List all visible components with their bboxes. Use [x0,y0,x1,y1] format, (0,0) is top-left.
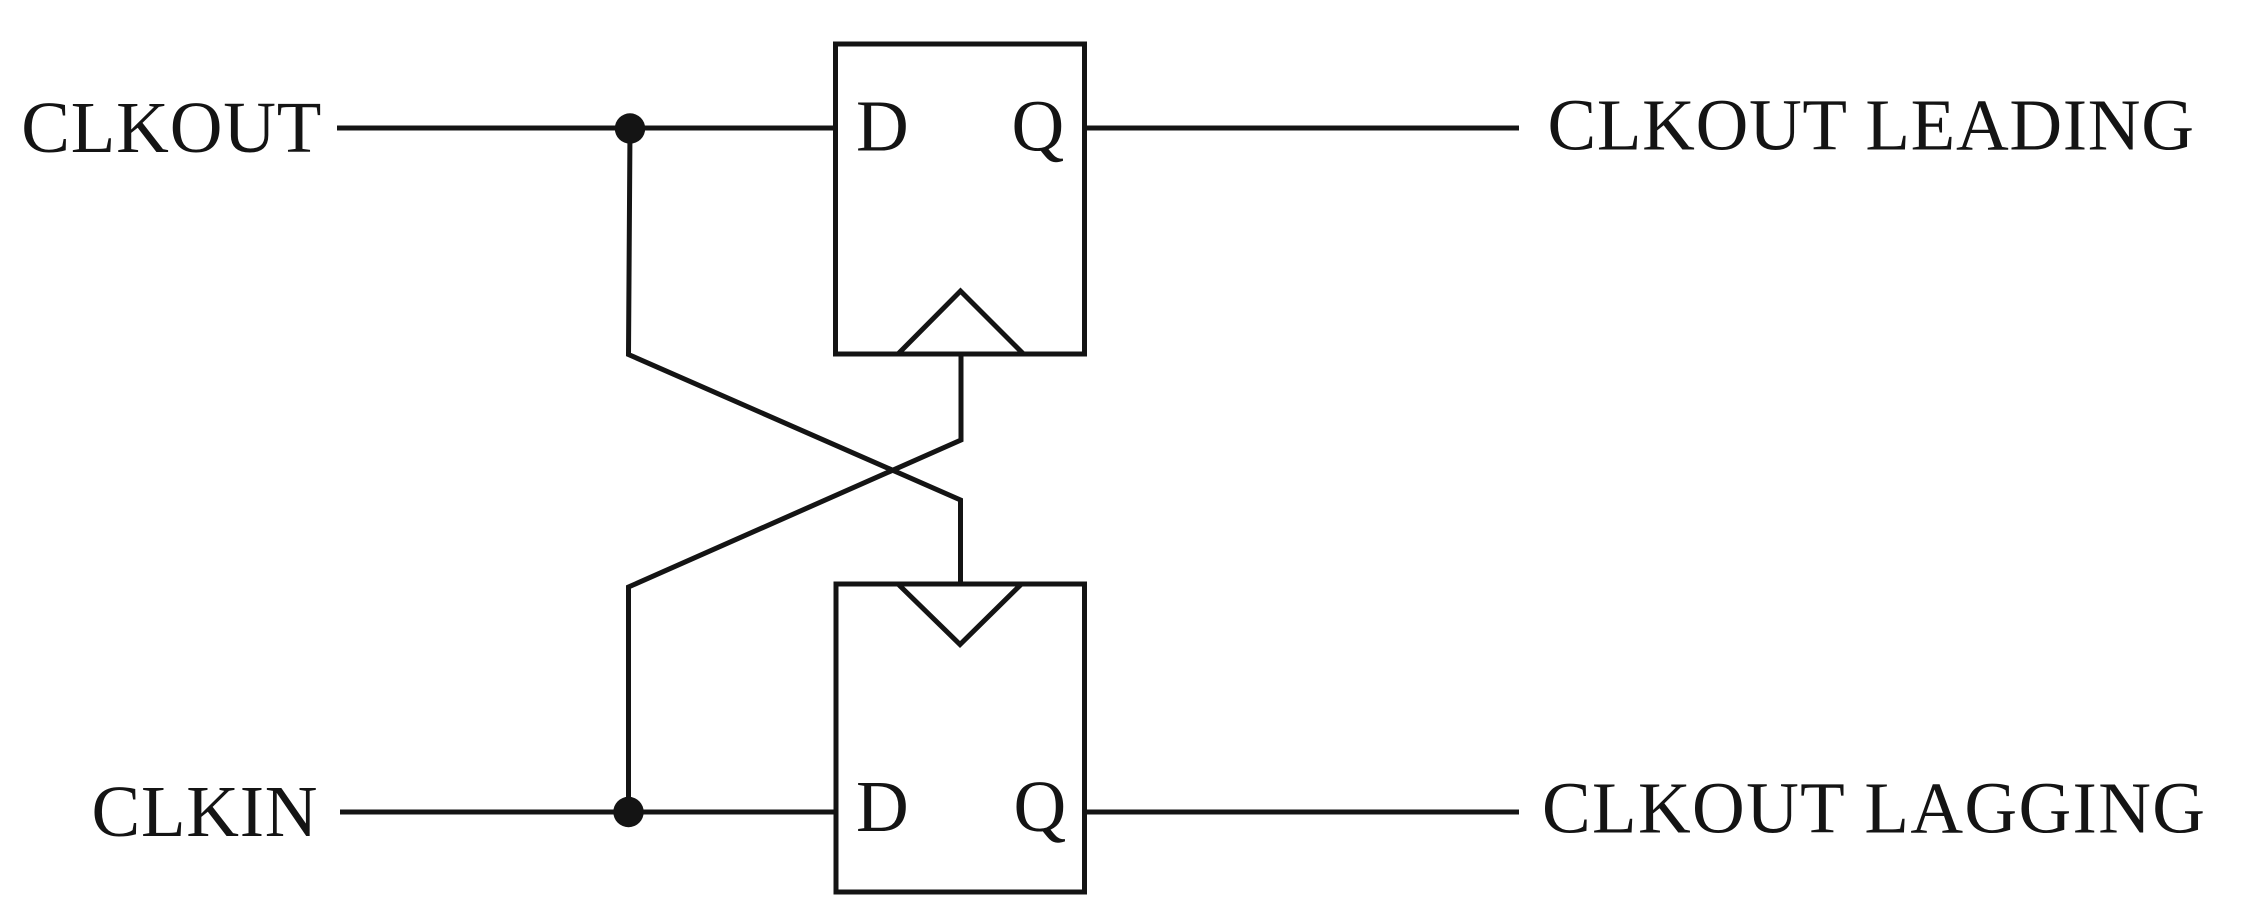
svg-text:CLKOUT LEADING: CLKOUT LEADING [1548,85,2195,166]
clock edge triangle of U1 [898,291,1024,354]
flip-flop U2 (bottom D flip-flop) body [836,584,1085,892]
wire Q of U1 to CLKOUT LEADING [1085,126,1520,131]
svg-text:CLKOUT: CLKOUT [21,87,322,168]
svg-text:Q: Q [1014,766,1067,847]
junction dot on CLKIN net [613,797,643,827]
svg-text:Q: Q [1012,86,1065,167]
wire CLKIN input to junction and D of U2 [340,810,836,815]
svg-text:D: D [856,766,909,847]
flip-flop U1 (top D flip-flop) body [836,44,1085,354]
svg-text:CLKIN: CLKIN [92,771,319,852]
svg-text:D: D [856,86,909,167]
wire Q of U2 to CLKOUT LAGGING [1085,810,1520,815]
wire CLKOUT junction down and across to clock of U2 [629,129,961,585]
wire CLKOUT input to junction and D of U1 [337,126,836,131]
clock edge triangle of U2 [898,584,1022,645]
wire clock of U1 down and across to CLKIN junction [629,354,962,813]
svg-text:CLKOUT LAGGING: CLKOUT LAGGING [1542,768,2206,849]
junction dot on CLKOUT net [615,113,645,143]
